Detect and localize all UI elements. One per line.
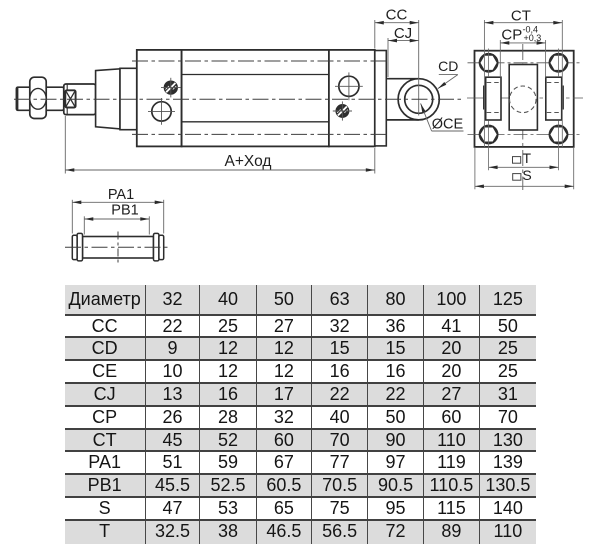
svg-text:А+Ход: А+Ход bbox=[225, 153, 272, 170]
svg-text:CC: CC bbox=[386, 7, 408, 24]
svg-text:S: S bbox=[522, 167, 531, 183]
svg-text:CP: CP bbox=[501, 27, 522, 44]
svg-text:CD: CD bbox=[438, 58, 458, 74]
svg-text:+0,3: +0,3 bbox=[524, 33, 542, 43]
svg-text:PB1: PB1 bbox=[111, 203, 138, 219]
svg-text:T: T bbox=[523, 150, 532, 166]
svg-text:CJ: CJ bbox=[394, 25, 412, 42]
svg-text:CT: CT bbox=[511, 7, 531, 24]
svg-text:PA1: PA1 bbox=[108, 187, 134, 203]
svg-text:ØCE: ØCE bbox=[432, 116, 464, 132]
